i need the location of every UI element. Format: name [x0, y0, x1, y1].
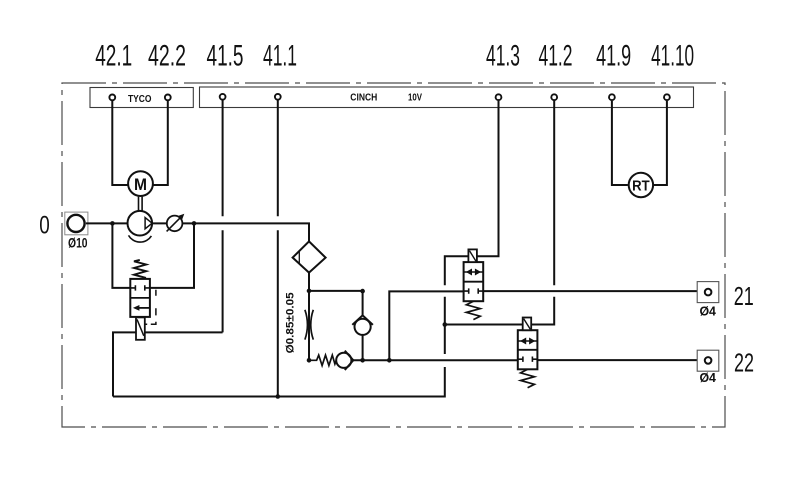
label 21	[734, 281, 754, 311]
junction dot restrictor bottom	[307, 358, 312, 363]
valve V2 out line to port 22	[537, 359, 697, 361]
label Ø4 (port 21)	[699, 304, 716, 319]
svg-text:Ø0.85±0.05: Ø0.85±0.05	[285, 292, 297, 353]
svg-text:41.2: 41.2	[539, 40, 573, 73]
junction dot under filter	[307, 289, 312, 294]
svg-text:Ø10: Ø10	[68, 236, 88, 251]
svg-text:M: M	[134, 175, 147, 194]
label Ø4 (port 22)	[699, 370, 716, 385]
junction dot at check branch corner	[360, 289, 365, 294]
terminal X41.5	[220, 94, 226, 100]
relief valve RV1 body	[130, 279, 150, 317]
svg-text:41.1: 41.1	[263, 40, 297, 73]
label Ø0.85±0.05	[285, 292, 297, 353]
line to valve V2 left port	[389, 359, 518, 361]
label CINCH	[350, 92, 377, 104]
suction line port0 to pump	[86, 222, 128, 224]
relief valve spring	[134, 260, 146, 278]
terminal X42.2	[165, 95, 171, 101]
wire 41.9 to RT	[612, 101, 628, 185]
svg-text:42.2: 42.2	[148, 40, 186, 73]
port 0 box	[65, 212, 88, 235]
valve V2 spring	[521, 369, 535, 387]
wire 41.10 to RT	[654, 101, 667, 185]
svg-text:Ø4: Ø4	[699, 304, 716, 319]
wire 42.1 to motor	[112, 101, 128, 185]
svg-text:42.1: 42.1	[95, 40, 132, 73]
svg-text:41.5: 41.5	[207, 40, 244, 73]
terminal X41.9	[609, 94, 615, 100]
svg-text:Ø4: Ø4	[699, 370, 716, 385]
wire 41.2 to valve V2 solenoid (gap at port21 line crossing)	[531, 100, 554, 324]
terminal X41.10	[664, 94, 670, 100]
pin label 42.1	[95, 40, 132, 73]
pin label 41.3	[486, 40, 520, 73]
pump P1	[128, 211, 153, 242]
junction dot CV line	[360, 358, 365, 363]
wire 41.5 to relief solenoid (gap at pump line crossing)	[222, 100, 224, 332]
terminal X41.1	[275, 94, 281, 100]
relief valve pilot dashed line	[145, 290, 156, 325]
svg-text:41.9: 41.9	[596, 40, 631, 73]
terminal X41.3	[496, 94, 502, 100]
wire 41.3 to valve V1 solenoid	[477, 101, 499, 256]
svg-text:41.3: 41.3	[486, 40, 520, 73]
motor M1	[128, 171, 153, 196]
relief proportional solenoid Y1	[136, 317, 145, 339]
check valve CV1 (vertical)	[352, 315, 373, 360]
pin label 41.5	[207, 40, 244, 73]
valve V2 body (41.2)	[518, 330, 538, 369]
common wire to V2 solenoid	[445, 324, 523, 326]
junction dot suction/relief	[110, 221, 115, 226]
common wire to V1 solenoid	[445, 256, 469, 324]
wire 41.1 to common rail (gap at pump line crossing)	[277, 100, 279, 396]
pin label 41.2	[539, 40, 573, 73]
junction dot pump outlet / relief right	[192, 221, 197, 226]
RT sensor	[629, 173, 653, 197]
bypass line up to valve V1 port	[389, 291, 463, 360]
label 22	[734, 347, 754, 377]
pin label 42.2	[148, 40, 186, 73]
common rail down to bottom	[113, 325, 445, 397]
valve V1 solenoid	[468, 249, 477, 262]
label TYCO	[128, 93, 152, 105]
spring of check valve CV2	[309, 355, 336, 365]
terminal strip CINCH	[200, 87, 694, 108]
junction dot 41.1/common rail	[276, 394, 281, 399]
svg-text:RT: RT	[632, 178, 650, 194]
filter outlet line	[308, 273, 310, 291]
valve V1 out line to port 21	[483, 290, 697, 292]
svg-text:22: 22	[734, 347, 754, 377]
terminal X42.1	[109, 95, 115, 101]
wire 41.5 horizontal to solenoid and common	[113, 332, 223, 396]
label Ø10	[68, 236, 88, 251]
check valve CV2 (horizontal, spring loaded)	[336, 351, 389, 370]
branch down to relief valve left port	[112, 223, 130, 288]
junction dot common/V2 solenoid	[443, 322, 448, 327]
branch to vertical check valve	[309, 291, 363, 315]
dashed enclosure border	[62, 83, 725, 427]
motor-pump shaft	[139, 197, 143, 211]
label 10V	[408, 92, 422, 104]
svg-text:0: 0	[39, 211, 50, 239]
valve V2 solenoid	[523, 318, 532, 331]
branch down to relief valve right port	[150, 223, 194, 288]
pin label 41.1	[263, 40, 297, 73]
port 22 box	[697, 350, 719, 371]
adjustable orifice B1	[167, 214, 185, 232]
pump outlet line	[152, 223, 309, 241]
port 0 circle	[67, 215, 84, 232]
pin label 41.9	[596, 40, 631, 73]
terminal strip TYCO	[90, 88, 193, 108]
fixed restrictor (orifice 0.85)	[305, 291, 313, 360]
svg-text:TYCO: TYCO	[128, 93, 152, 105]
filter F1	[293, 241, 326, 272]
svg-text:10V: 10V	[408, 92, 422, 104]
label 0	[39, 211, 50, 239]
valve V1 spring	[466, 301, 480, 319]
svg-text:41.10: 41.10	[651, 40, 694, 73]
wire 42.2 to motor	[153, 101, 168, 185]
terminal X41.2	[551, 94, 557, 100]
valve V1 body (41.3)	[464, 262, 484, 301]
pin label 41.10	[651, 40, 694, 73]
svg-text:21: 21	[734, 281, 754, 311]
port 21 box	[697, 282, 719, 303]
svg-text:CINCH: CINCH	[350, 92, 377, 104]
junction dot bypass bottom	[387, 358, 392, 363]
